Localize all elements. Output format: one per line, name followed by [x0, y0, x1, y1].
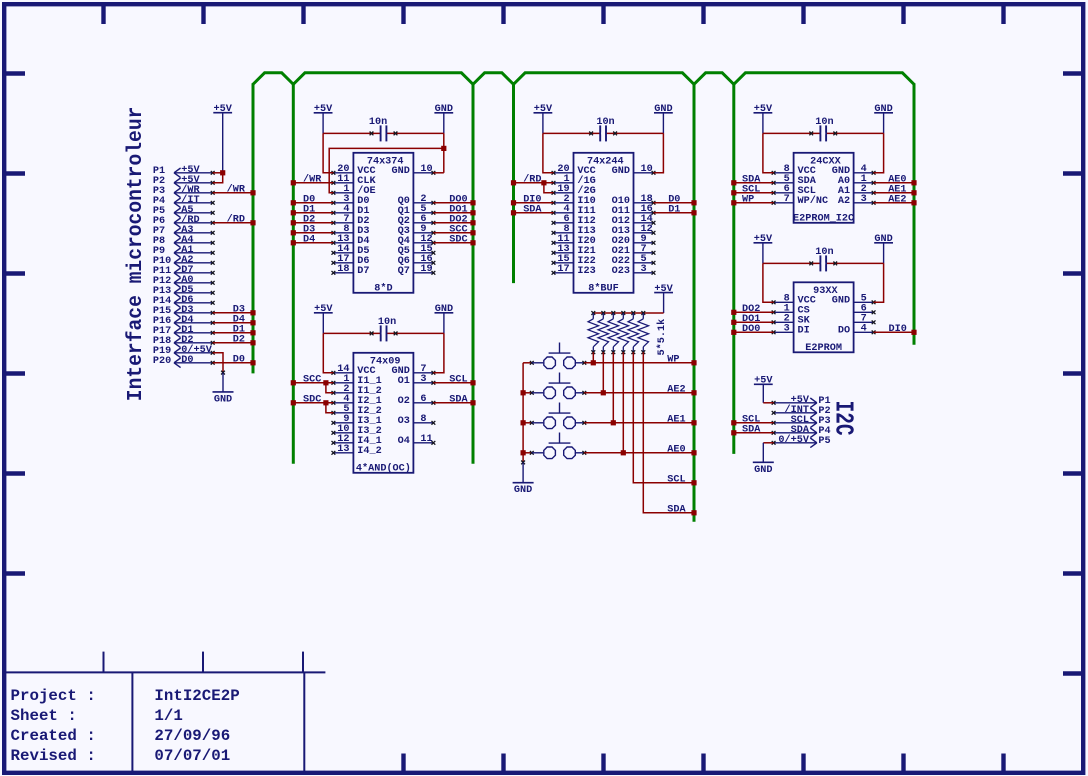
svg-text:SDA: SDA — [523, 204, 542, 215]
svg-text:0/+5V: 0/+5V — [778, 434, 809, 446]
svg-text:/WR: /WR — [227, 183, 246, 195]
svg-text:7: 7 — [784, 194, 790, 205]
svg-text:DI: DI — [798, 326, 810, 337]
svg-text:O1: O1 — [398, 376, 410, 387]
svg-text:P5: P5 — [818, 436, 830, 447]
svg-text:8*BUF: 8*BUF — [588, 283, 619, 295]
svg-text:13: 13 — [337, 444, 349, 455]
svg-text:I4_2: I4_2 — [357, 446, 381, 457]
svg-text:/RD: /RD — [523, 173, 541, 185]
svg-text:SCL: SCL — [449, 374, 467, 385]
svg-text:3: 3 — [641, 264, 647, 275]
svg-text:D2: D2 — [233, 334, 245, 345]
svg-text:GND: GND — [392, 166, 410, 177]
svg-text:DO0: DO0 — [742, 324, 760, 335]
svg-text:11: 11 — [420, 434, 432, 445]
svg-text:GND: GND — [832, 296, 850, 307]
svg-text:D4: D4 — [303, 234, 315, 245]
svg-text:6: 6 — [420, 394, 426, 405]
svg-text:Interface microcontroleur: Interface microcontroleur — [124, 107, 148, 402]
svg-text:GND: GND — [214, 394, 232, 405]
svg-text:IntI2CE2P: IntI2CE2P — [154, 687, 239, 705]
svg-text:SDA: SDA — [667, 504, 686, 515]
svg-text:27/09/96: 27/09/96 — [154, 727, 230, 745]
svg-text:Sheet :: Sheet : — [11, 707, 77, 725]
svg-text:WP/NC: WP/NC — [798, 195, 829, 207]
svg-text:18: 18 — [337, 264, 349, 275]
svg-text:WP: WP — [742, 194, 754, 205]
svg-text:O23: O23 — [612, 266, 630, 277]
svg-text:10: 10 — [641, 164, 653, 175]
svg-text:D0: D0 — [233, 354, 245, 365]
svg-text:3: 3 — [784, 323, 790, 334]
svg-text:SDC: SDC — [449, 234, 467, 245]
svg-text:Project :: Project : — [11, 687, 96, 705]
svg-text:8: 8 — [420, 414, 426, 425]
svg-text:AE2: AE2 — [888, 194, 906, 205]
svg-text:AE0: AE0 — [667, 444, 685, 455]
svg-text:10n: 10n — [815, 247, 833, 258]
svg-text:1/1: 1/1 — [154, 707, 182, 725]
svg-text:Revised :: Revised : — [11, 747, 96, 765]
svg-text:E2PROM_I2C: E2PROM_I2C — [793, 214, 854, 225]
svg-text:GND: GND — [612, 166, 630, 177]
svg-text:SCL: SCL — [667, 474, 685, 485]
svg-text:19: 19 — [420, 264, 432, 275]
svg-text:E2PROM: E2PROM — [805, 343, 842, 354]
svg-text:/WR: /WR — [303, 173, 322, 185]
svg-text:SCC: SCC — [303, 374, 321, 385]
svg-text:10n: 10n — [378, 317, 396, 328]
svg-text:GND: GND — [514, 485, 532, 496]
svg-text:3: 3 — [420, 374, 426, 385]
svg-text:Created :: Created : — [11, 727, 96, 745]
svg-text:A2: A2 — [838, 196, 850, 207]
svg-text:4: 4 — [861, 323, 867, 334]
svg-text:O3: O3 — [398, 416, 410, 427]
svg-text:GND: GND — [754, 465, 772, 476]
svg-text:O4: O4 — [398, 436, 410, 447]
svg-text:D0: D0 — [181, 355, 193, 366]
svg-text:D1: D1 — [668, 204, 680, 215]
svg-text:O2: O2 — [398, 396, 410, 407]
svg-text:07/07/01: 07/07/01 — [154, 747, 230, 765]
svg-text:8*D: 8*D — [374, 283, 392, 295]
svg-text:10: 10 — [420, 164, 432, 175]
svg-text:D7: D7 — [357, 266, 369, 277]
svg-text:5*5.1k: 5*5.1k — [656, 319, 668, 356]
svg-text:10n: 10n — [596, 117, 614, 128]
svg-text:I23: I23 — [577, 266, 595, 277]
svg-text:4*AND(OC): 4*AND(OC) — [356, 463, 411, 475]
svg-text:Q7: Q7 — [398, 266, 410, 277]
svg-text:P20: P20 — [153, 356, 171, 367]
svg-text:SDA: SDA — [449, 394, 468, 405]
svg-text:/RD: /RD — [227, 213, 245, 225]
svg-text:DI0: DI0 — [889, 324, 907, 335]
svg-text:10n: 10n — [369, 117, 387, 128]
svg-text:10n: 10n — [815, 117, 833, 128]
svg-text:17: 17 — [557, 264, 569, 275]
svg-text:WP: WP — [667, 354, 679, 365]
svg-text:SDA: SDA — [742, 424, 761, 435]
svg-text:AE2: AE2 — [667, 384, 685, 395]
svg-text:3: 3 — [861, 194, 867, 205]
svg-text:AE1: AE1 — [667, 414, 685, 425]
svg-text:SDC: SDC — [303, 394, 321, 405]
svg-text:DO: DO — [838, 326, 850, 337]
svg-text:I2C: I2C — [828, 401, 857, 436]
